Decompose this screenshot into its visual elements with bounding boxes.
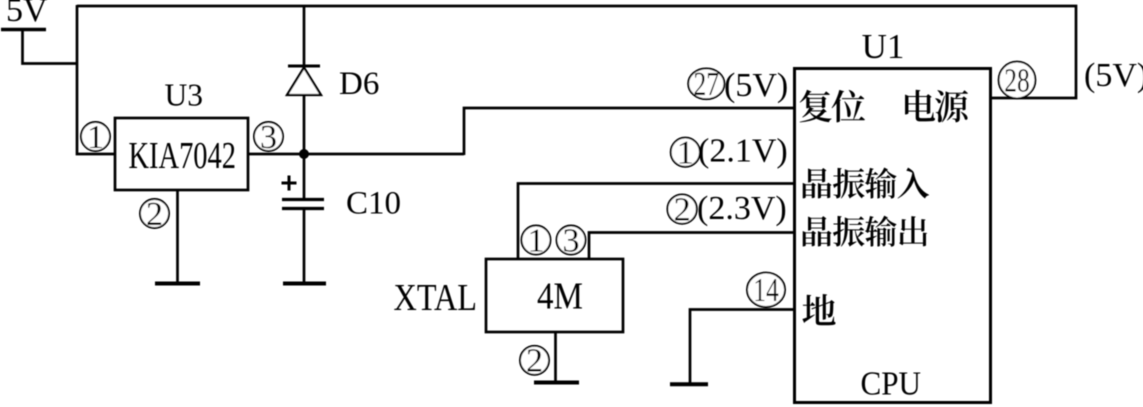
svg-text:CPU: CPU [861, 366, 922, 403]
pin 1 of U3 [81, 119, 110, 156]
CPU U1 box [795, 69, 991, 403]
svg-text:1: 1 [677, 135, 694, 172]
svg-text:28: 28 [1004, 62, 1030, 99]
wire: C10 to ground [303, 209, 306, 284]
svg-text:2: 2 [526, 343, 543, 380]
pin label crystal-out 晶振输出 [803, 216, 927, 247]
svg-text:U3: U3 [165, 78, 204, 113]
pin 2 of XTAL [520, 343, 549, 380]
ground (U1 pin 14) [670, 382, 708, 386]
pin 14 of U1 [747, 272, 785, 309]
svg-text:3: 3 [563, 222, 580, 259]
capacitor C10 [282, 200, 324, 209]
svg-text:(2.3V): (2.3V) [697, 190, 787, 227]
svg-text:XTAL: XTAL [394, 277, 478, 319]
pin 2 of U1 [667, 191, 696, 228]
plus polarity mark of C10 [282, 176, 297, 191]
wire: diode to node A [303, 95, 306, 154]
regulator U3 box [115, 118, 248, 190]
svg-text:1: 1 [528, 222, 545, 259]
pin label reset 复位 [800, 90, 865, 123]
wire: node A to C10 [303, 154, 306, 199]
svg-text:C10: C10 [346, 186, 401, 222]
svg-text:2: 2 [674, 191, 691, 228]
svg-text:2: 2 [146, 196, 163, 233]
wire: XTAL pin 1 to U1 crystal-in [518, 184, 793, 260]
pin 28 of U1 [999, 62, 1036, 100]
pin 1 of U1 [671, 135, 700, 172]
ground (U3 pin 2) [155, 282, 200, 286]
wire: 5V top rail to U1 pin 28 [77, 6, 1076, 98]
wire: XTAL pin 3 to U1 crystal-out [589, 233, 793, 260]
ground (C10) [283, 282, 326, 286]
svg-text:(2.1V): (2.1V) [698, 133, 788, 170]
svg-text:(5V): (5V) [1084, 57, 1143, 94]
svg-text:14: 14 [753, 272, 779, 309]
svg-text:D6: D6 [339, 66, 379, 102]
wire: node A to U1 reset pin 27 [464, 108, 793, 155]
crystal XTAL box [486, 259, 623, 332]
power symbol 5V bar [1, 28, 46, 31]
svg-text:27: 27 [694, 66, 720, 103]
pin label power 电源 [905, 90, 968, 123]
ground (XTAL pin 2) [534, 381, 579, 385]
wire: ground to U1 pin 14 [690, 310, 793, 384]
pin 3 of XTAL [557, 222, 586, 259]
wire: 5V tap to rail [23, 30, 78, 64]
svg-text:(5V): (5V) [724, 67, 788, 104]
pin label ground 地 [802, 294, 835, 325]
wire: U3 pin 3 to node A and reset bend [248, 153, 464, 156]
pin 2 of U3 [140, 196, 169, 233]
diode D6 [287, 66, 321, 95]
pin 1 of XTAL [522, 222, 551, 259]
wire: XTAL pin 2 to ground [554, 332, 557, 382]
svg-text:U1: U1 [862, 27, 905, 66]
svg-text:3: 3 [260, 119, 277, 156]
pin label crystal-in 晶振输入 [803, 168, 929, 199]
svg-text:KIA7042: KIA7042 [129, 135, 237, 177]
pin 27 of U1 [688, 66, 724, 103]
svg-text:5V: 5V [6, 0, 48, 29]
wire: left drop from rail to U3 pin 1 [77, 5, 115, 154]
svg-text:4M: 4M [537, 276, 583, 318]
svg-text:1: 1 [87, 119, 104, 156]
wire: rail to diode D6 [303, 6, 306, 66]
wire: U3 pin 2 to ground [176, 190, 179, 283]
pin 3 of U3 [254, 119, 283, 156]
node A junction dot [299, 149, 309, 159]
